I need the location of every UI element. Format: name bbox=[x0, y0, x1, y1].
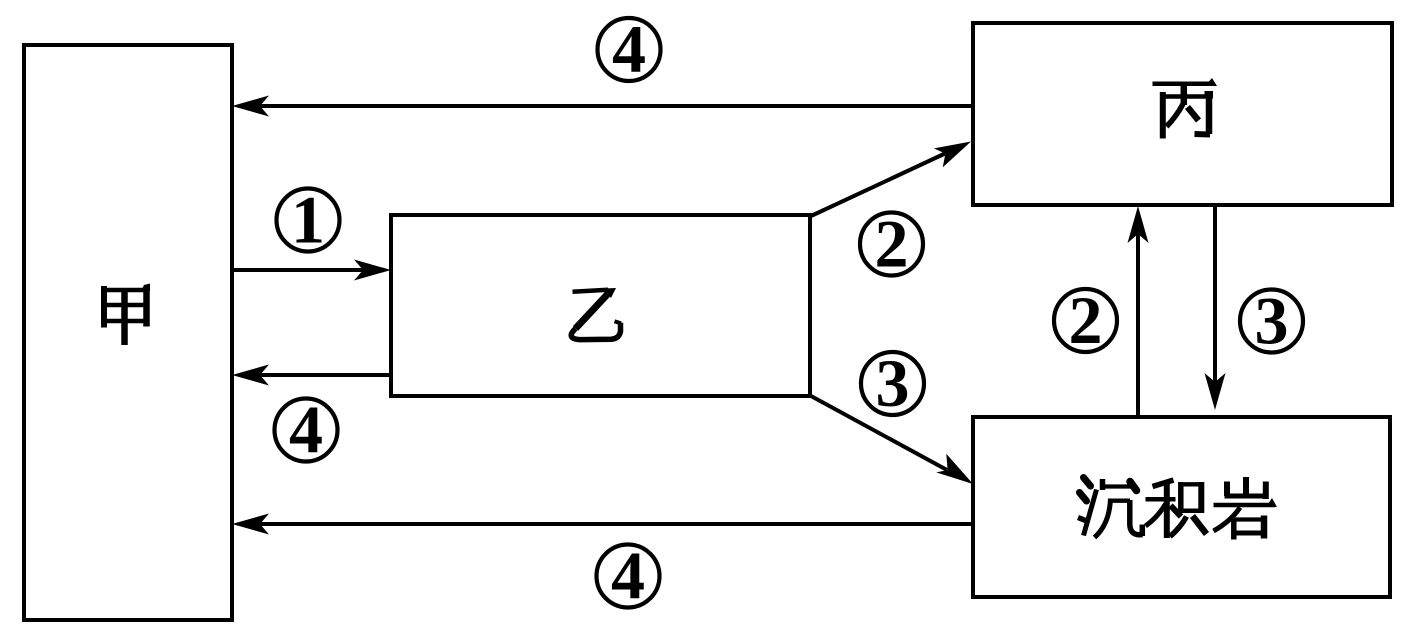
wire: arrow 2 vertical up, from 沉积岩 top edge to 丙 bottom edge bbox=[1128, 206, 1149, 417]
glyph 乙 (drawn character inside middle box) bbox=[571, 288, 621, 340]
label circled 4 top bbox=[598, 11, 661, 87]
glyph 甲 (drawn character inside left box) bbox=[101, 284, 150, 346]
wire: arrow 4 middle, from 乙 left edge to 甲 right edge bbox=[232, 365, 391, 386]
svg-text:4: 4 bbox=[612, 11, 646, 87]
wire: arrow 4 top, from 丙 left edge to 甲 right edge bbox=[232, 96, 973, 117]
svg-text:2: 2 bbox=[875, 206, 909, 282]
glyph 岩 (third character inside bottom-right box) bbox=[1214, 477, 1278, 540]
glyph 沉 (first character inside bottom-right box) bbox=[1078, 478, 1143, 538]
svg-text:3: 3 bbox=[876, 345, 910, 421]
wire: arrow 3 vertical down, from 丙 bottom edge to 沉积岩 top edge bbox=[1205, 205, 1226, 410]
box 沉积岩 (bottom right rectangle) bbox=[973, 417, 1390, 597]
svg-text:1: 1 bbox=[291, 182, 325, 258]
label circled 2 vertical bbox=[1054, 282, 1117, 358]
glyph 积 (second character inside bottom-right box) bbox=[1146, 480, 1207, 538]
label circled 2 diagonal bbox=[860, 206, 923, 282]
svg-text:3: 3 bbox=[1255, 283, 1289, 359]
svg-text:2: 2 bbox=[1069, 282, 1103, 358]
svg-text:4: 4 bbox=[611, 538, 645, 614]
box 乙 (middle rectangle) bbox=[391, 215, 810, 396]
label circled 1 bbox=[277, 182, 340, 258]
wire: arrow 3 diagonal, from 乙 bottom-right corner to 沉积岩 left edge bbox=[811, 396, 973, 484]
label circled 3 diagonal bbox=[861, 345, 924, 421]
box 丙 (top right rectangle) bbox=[973, 23, 1392, 205]
wire: arrow 4 bottom, from 沉积岩 left edge to 甲 right edge bbox=[232, 514, 973, 535]
wire: arrow 2 diagonal, from 乙 top-right corner to 丙 left edge bbox=[811, 142, 971, 217]
label circled 4 middle bbox=[275, 392, 338, 468]
wire: arrow 1, from 甲 right edge to 乙 left edge bbox=[232, 260, 391, 281]
label circled 4 bottom bbox=[597, 538, 660, 614]
box 甲 (left tall rectangle) bbox=[24, 45, 232, 620]
label circled 3 vertical bbox=[1240, 283, 1303, 359]
svg-text:4: 4 bbox=[289, 392, 323, 468]
glyph 丙 (drawn character inside top-right box) bbox=[1153, 78, 1218, 139]
